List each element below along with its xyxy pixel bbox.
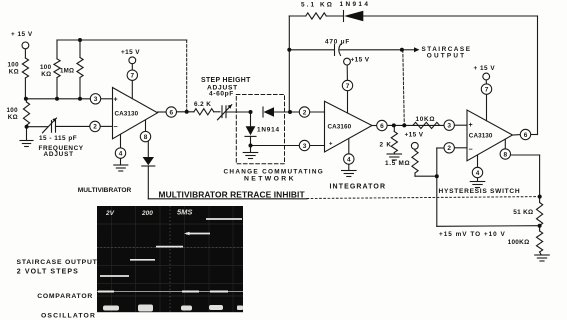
svg-text:2: 2: [303, 109, 307, 116]
svg-text:NETWORK: NETWORK: [244, 176, 296, 183]
svg-text:CA3130: CA3130: [469, 133, 493, 140]
svg-text:5.1 KΩ: 5.1 KΩ: [301, 2, 334, 9]
svg-text:KΩ: KΩ: [8, 114, 18, 121]
svg-text:ADJUST: ADJUST: [44, 151, 74, 158]
svg-text:+15 V: +15 V: [405, 132, 424, 139]
svg-text:−: −: [114, 124, 118, 131]
svg-text:KΩ: KΩ: [41, 71, 51, 78]
svg-text:2 VOLT STEPS: 2 VOLT STEPS: [17, 268, 79, 275]
svg-text:INTEGRATOR: INTEGRATOR: [330, 184, 387, 191]
svg-text:6.2 K: 6.2 K: [194, 101, 211, 108]
svg-text:1N914: 1N914: [340, 1, 371, 8]
svg-text:+: +: [114, 97, 118, 104]
svg-text:51 KΩ: 51 KΩ: [513, 209, 533, 216]
svg-text:100: 100: [40, 64, 52, 71]
svg-text:2V: 2V: [105, 210, 115, 217]
svg-text:5MS: 5MS: [177, 208, 192, 217]
svg-text:6: 6: [380, 123, 384, 130]
svg-text:4: 4: [347, 156, 351, 163]
svg-text:STEP HEIGHT: STEP HEIGHT: [201, 77, 251, 84]
svg-text:7: 7: [346, 83, 350, 90]
svg-text:100KΩ: 100KΩ: [508, 239, 530, 246]
svg-text:7: 7: [485, 86, 489, 93]
svg-text:OSCILLATOR: OSCILLATOR: [41, 313, 96, 320]
svg-text:CHANGE COMMUTATING: CHANGE COMMUTATING: [224, 169, 325, 176]
svg-text:15 - 115 pF: 15 - 115 pF: [39, 135, 77, 142]
svg-text:470 μF: 470 μF: [325, 39, 350, 46]
svg-text:MULTIVIBRATOR RETRACE INHIBI: MULTIVIBRATOR RETRACE INHIBIT: [159, 190, 306, 200]
svg-text:3: 3: [447, 123, 451, 130]
svg-text:6: 6: [169, 109, 173, 116]
svg-text:4: 4: [119, 150, 123, 157]
svg-text:2 K: 2 K: [380, 142, 392, 149]
svg-text:+: +: [329, 142, 333, 148]
svg-text:+15 mV TO +10 V: +15 mV TO +10 V: [439, 231, 506, 238]
svg-text:HYSTERESIS SWITCH: HYSTERESIS SWITCH: [439, 188, 521, 195]
svg-text:200: 200: [141, 210, 153, 217]
svg-text:+15 V: +15 V: [121, 49, 140, 56]
svg-text:STAIRCASE OUTPUT: STAIRCASE OUTPUT: [17, 259, 98, 266]
svg-text:+ 15 V: + 15 V: [11, 31, 33, 38]
svg-text:+: +: [469, 122, 473, 129]
svg-text:1MΩ: 1MΩ: [60, 68, 74, 75]
svg-text:4: 4: [476, 170, 480, 177]
svg-text:7: 7: [130, 73, 134, 80]
svg-text:3: 3: [303, 143, 307, 150]
svg-text:+15 V: +15 V: [351, 57, 370, 64]
svg-text:3: 3: [94, 96, 98, 103]
svg-text:+ 15 V: + 15 V: [474, 65, 496, 72]
svg-text:KΩ: KΩ: [9, 69, 19, 76]
svg-text:100: 100: [7, 62, 19, 69]
svg-text:2: 2: [447, 145, 451, 152]
svg-text:10KΩ: 10KΩ: [416, 116, 436, 123]
svg-text:CA3130: CA3130: [115, 110, 139, 117]
svg-text:MULTIVIBRATOR: MULTIVIBRATOR: [78, 187, 132, 194]
svg-text:1.5 MΩ: 1.5 MΩ: [385, 160, 410, 167]
svg-text:100: 100: [6, 107, 18, 114]
svg-text:CA3160: CA3160: [328, 124, 352, 131]
svg-text:4-60pF: 4-60pF: [209, 90, 234, 97]
svg-text:OUTPUT: OUTPUT: [427, 53, 466, 60]
svg-text:6: 6: [524, 132, 528, 139]
svg-text:COMPARATOR: COMPARATOR: [37, 293, 93, 300]
svg-text:2: 2: [93, 124, 97, 131]
svg-text:−: −: [469, 147, 473, 154]
svg-text:8: 8: [144, 134, 148, 141]
svg-text:1N914: 1N914: [257, 127, 280, 134]
svg-text:8: 8: [503, 151, 507, 158]
